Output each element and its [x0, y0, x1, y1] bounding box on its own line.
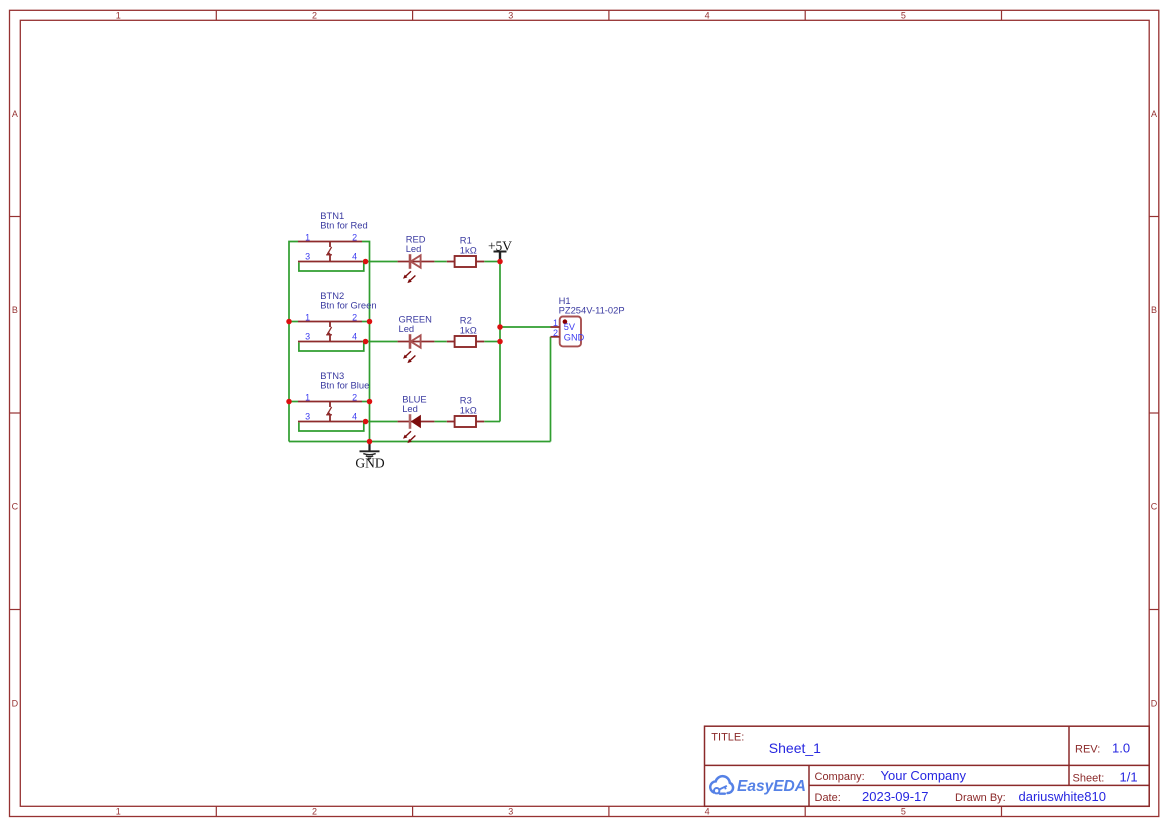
svg-text:3: 3	[508, 10, 513, 20]
svg-text:1kΩ: 1kΩ	[460, 245, 477, 256]
svg-text:GND: GND	[355, 456, 384, 471]
svg-text:4: 4	[705, 807, 710, 817]
svg-text:TITLE:: TITLE:	[711, 732, 744, 744]
svg-text:Company:: Company:	[815, 771, 865, 783]
svg-text:1: 1	[116, 10, 121, 20]
svg-text:1: 1	[116, 807, 121, 817]
resistor R1 1kΩ	[447, 235, 484, 267]
wire: LED to resistor row 1	[434, 261, 446, 263]
svg-text:Btn for Red: Btn for Red	[320, 219, 367, 230]
svg-text:2023-09-17: 2023-09-17	[862, 789, 929, 804]
wire: BTN2 pin2 to right bus	[362, 321, 370, 323]
wire: LED to resistor row 2	[434, 341, 446, 343]
svg-text:GND: GND	[564, 332, 585, 342]
pushbutton BTN3	[298, 370, 369, 422]
svg-text:C: C	[1151, 502, 1158, 512]
svg-text:B: B	[12, 305, 18, 315]
wire: resistor to +5V bus row 3	[484, 421, 500, 423]
svg-text:2: 2	[553, 328, 558, 338]
wire: BTN3 pin1 to left bus	[289, 401, 298, 403]
wire: +5V vertical bus	[499, 262, 501, 422]
svg-text:Your Company: Your Company	[881, 768, 967, 783]
resistor R3 1kΩ	[447, 395, 484, 427]
wire: bus to H1 pin 1	[500, 326, 551, 328]
svg-text:1: 1	[305, 392, 310, 402]
svg-text:1: 1	[553, 318, 558, 328]
wire: LED to resistor row 3	[434, 421, 446, 423]
wire: BTN2 pin1 to left bus	[289, 321, 298, 323]
pushbutton BTN2	[298, 290, 377, 342]
svg-text:Btn for Green: Btn for Green	[320, 299, 376, 310]
svg-text:A: A	[1151, 109, 1157, 119]
LED GREEN Led	[398, 314, 435, 364]
svg-text:1: 1	[305, 232, 310, 242]
svg-text:3: 3	[508, 807, 513, 817]
svg-text:Led: Led	[406, 243, 422, 254]
junction dots	[286, 259, 503, 445]
wire: left bus pin1 side	[289, 242, 298, 442]
wire: H1 pin 2 to bottom wire	[550, 337, 552, 442]
svg-text:D: D	[12, 698, 19, 708]
resistor R2 1kΩ	[447, 315, 484, 347]
svg-text:Led: Led	[402, 403, 418, 414]
svg-text:Sheet:: Sheet:	[1073, 773, 1105, 785]
connector H1 PZ254V-11-02P	[551, 295, 625, 347]
ground GND	[355, 442, 384, 471]
svg-text:2: 2	[312, 10, 317, 20]
svg-text:Sheet_1: Sheet_1	[769, 740, 821, 756]
svg-text:dariuswhite810: dariuswhite810	[1019, 789, 1106, 804]
H1 pin1 orientation dot	[563, 319, 568, 324]
svg-text:Date:: Date:	[815, 792, 841, 804]
wire: BTN1 pin4 to LED	[362, 261, 398, 263]
svg-text:3: 3	[305, 251, 310, 261]
svg-text:PZ254V-11-02P: PZ254V-11-02P	[559, 304, 625, 315]
svg-text:Led: Led	[399, 323, 415, 334]
svg-text:5V: 5V	[564, 322, 576, 332]
wire: BTN2 pin3-pin4 loop	[299, 343, 364, 352]
svg-text:REV:: REV:	[1075, 744, 1100, 756]
svg-text:4: 4	[352, 251, 357, 261]
EasyEDA logo	[710, 776, 806, 795]
svg-text:5: 5	[901, 807, 906, 817]
LED RED Led	[398, 234, 435, 284]
svg-text:4: 4	[352, 411, 357, 421]
wire: resistor to +5V bus row 1	[484, 261, 500, 263]
svg-text:2: 2	[312, 807, 317, 817]
svg-text:4: 4	[705, 10, 710, 20]
svg-text:Drawn By:: Drawn By:	[955, 792, 1006, 804]
svg-text:+5V: +5V	[488, 238, 512, 253]
wire: resistor to +5V bus row 2	[484, 341, 500, 343]
svg-text:D: D	[1151, 698, 1158, 708]
svg-text:A: A	[12, 109, 18, 119]
H1 pin 1	[551, 326, 560, 328]
svg-text:1kΩ: 1kΩ	[460, 405, 477, 416]
wire: right bus pin2 side with GND tap	[362, 242, 370, 442]
wire: BTN3 pin4 to LED	[362, 421, 398, 423]
wire: BTN3 pin3-pin4 loop	[299, 423, 364, 432]
svg-text:1/1: 1/1	[1120, 770, 1138, 785]
svg-text:2: 2	[352, 312, 357, 322]
title block	[705, 726, 1150, 806]
svg-text:1kΩ: 1kΩ	[460, 325, 477, 336]
svg-text:B: B	[1151, 305, 1157, 315]
svg-text:2: 2	[352, 392, 357, 402]
wire: BTN1 pin3-pin4 loop	[299, 263, 364, 272]
svg-text:EasyEDA: EasyEDA	[737, 778, 806, 795]
pushbutton BTN1	[298, 210, 368, 262]
LED BLUE Led	[398, 394, 435, 444]
svg-text:4: 4	[352, 331, 357, 341]
svg-text:1.0: 1.0	[1112, 741, 1130, 756]
svg-text:3: 3	[305, 411, 310, 421]
svg-text:1: 1	[305, 312, 310, 322]
wire: BTN3 pin2 to right bus	[362, 401, 370, 403]
svg-text:C: C	[12, 502, 19, 512]
wire: bottom ground wire	[289, 441, 551, 443]
svg-text:Btn for Blue: Btn for Blue	[320, 379, 369, 390]
svg-text:3: 3	[305, 331, 310, 341]
H1 pin 2	[551, 336, 560, 338]
power +5V	[488, 238, 512, 260]
wire: BTN2 pin4 to LED	[362, 341, 398, 343]
svg-text:2: 2	[352, 232, 357, 242]
svg-text:5: 5	[901, 10, 906, 20]
